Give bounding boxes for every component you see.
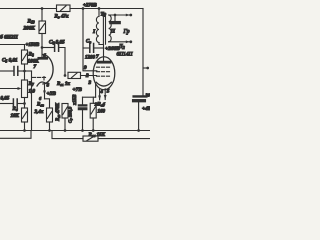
pentode anode lead <box>99 43 104 62</box>
potentiometer R7 1.0 <box>0 71 28 108</box>
svg-text:С8: С8 <box>86 40 91 45</box>
svg-text:2: 2 <box>85 73 89 79</box>
wire right B+ rail <box>142 9 144 96</box>
capacitor C9 filter <box>133 96 148 131</box>
svg-text:2,4к: 2,4к <box>34 110 44 115</box>
svg-text:R11 1к: R11 1к <box>57 82 70 87</box>
pentode V2 envelope <box>93 57 115 90</box>
node C7 <box>81 129 84 132</box>
pentode cathode lead <box>95 84 97 97</box>
svg-text:б 6Н2П: б 6Н2П <box>0 34 19 41</box>
wire secondary bottom <box>109 41 130 43</box>
wire feedback line right <box>52 131 83 139</box>
svg-text:3: 3 <box>88 80 92 86</box>
node C9 <box>137 129 140 132</box>
capacitor C8 1200 <box>83 44 104 53</box>
resistor R15 160 <box>90 97 96 130</box>
resistor R11 1k <box>68 72 97 78</box>
chassis ground <box>110 15 121 24</box>
transformer core <box>103 14 105 44</box>
svg-text:10К: 10К <box>11 114 20 119</box>
transformer secondary winding II <box>109 15 112 42</box>
svg-text:+270В: +270В <box>83 4 97 9</box>
resistor R13 470K grid leak <box>62 104 68 131</box>
triode cathode lead <box>43 85 46 99</box>
svg-text:Л2: Л2 <box>118 44 125 50</box>
svg-text:С5 0,01: С5 0,01 <box>2 58 18 64</box>
node R13 <box>64 129 67 132</box>
wire R8 feed from left <box>0 45 25 51</box>
triode cathode <box>37 82 46 86</box>
svg-text:5: 5 <box>107 89 110 95</box>
node C4/R6/R7 <box>23 102 26 105</box>
svg-text:С7 100,0: С7 100,0 <box>68 106 74 123</box>
svg-text:х15В: х15В <box>73 94 78 106</box>
capacitor C4 0.05 <box>0 99 25 108</box>
capacitor C6 0.05 <box>42 43 65 76</box>
svg-text:R9 47к: R9 47к <box>55 15 69 20</box>
wire pentode cathode jog <box>83 96 96 98</box>
svg-text:R12: R12 <box>37 103 44 108</box>
svg-text:R15: R15 <box>98 103 105 108</box>
terminal tap right <box>143 67 147 69</box>
svg-text:II: II <box>110 29 116 35</box>
node R10 tap <box>41 7 44 10</box>
node chassis stub <box>114 14 117 17</box>
node R11/R13 junction <box>64 74 67 77</box>
triode grid dashes <box>32 77 45 81</box>
wire cathode jog <box>45 99 50 108</box>
svg-text:7: 7 <box>96 54 99 60</box>
svg-text:R13 470К: R13 470К <box>56 102 61 121</box>
triode grid wire <box>31 71 33 131</box>
wire ground bus <box>0 130 150 132</box>
resistor R8 100K <box>22 50 28 71</box>
node R6 <box>23 129 26 132</box>
resistor R14 15K <box>83 136 150 141</box>
terminal dot top <box>126 14 130 17</box>
svg-text:+4В: +4В <box>142 106 150 112</box>
svg-text:1200: 1200 <box>85 56 96 61</box>
svg-text:1,0: 1,0 <box>29 89 36 95</box>
triode V1b anode <box>38 48 48 60</box>
pentode anode bar <box>97 61 111 63</box>
svg-text:4: 4 <box>99 89 103 95</box>
svg-text:200К: 200К <box>23 26 36 32</box>
svg-text:+150В: +150В <box>26 43 40 48</box>
svg-text:С6 0,05: С6 0,05 <box>49 40 65 46</box>
svg-text:0,05: 0,05 <box>1 97 10 102</box>
svg-text:6П14П: 6П14П <box>117 52 134 58</box>
svg-text:+7В: +7В <box>73 87 83 93</box>
node R15 <box>92 129 95 132</box>
svg-text:9: 9 <box>84 65 87 71</box>
terminal dot bottom <box>126 40 130 43</box>
capacitor C7 100uF <box>78 97 87 130</box>
node transformer tap <box>98 7 101 10</box>
pentode cathode arc <box>96 82 111 86</box>
resistor R6 10K <box>22 108 28 131</box>
svg-text:Гр: Гр <box>123 29 130 35</box>
svg-text:+2В: +2В <box>47 91 57 97</box>
wire screen feed <box>83 9 97 71</box>
svg-text:R6: R6 <box>13 107 18 112</box>
transformer primary winding I <box>96 9 99 43</box>
node grid junction <box>23 70 26 73</box>
svg-text:R14 15К: R14 15К <box>89 133 106 138</box>
wire feedback line left <box>0 131 31 139</box>
resistor R9 47k <box>57 5 71 12</box>
node screen feed tap <box>82 7 85 10</box>
svg-text:8: 8 <box>47 83 50 89</box>
resistor R10 200K <box>39 9 46 48</box>
capacitor C5 0.01 <box>0 67 32 76</box>
svg-text:7: 7 <box>34 64 37 70</box>
svg-text:20: 20 <box>145 93 151 98</box>
wire secondary top <box>109 14 130 16</box>
resistor R12 2.4k <box>47 108 53 131</box>
pentode grid rows <box>97 67 110 76</box>
node R12 <box>48 129 51 132</box>
wire top B+ bus <box>0 8 143 10</box>
node anode V1 +150V <box>41 46 44 49</box>
svg-text:160: 160 <box>98 110 106 115</box>
triode envelope arc <box>43 55 53 85</box>
heater lead pin 5 <box>104 89 107 100</box>
heater lead pin 4 <box>98 89 101 100</box>
